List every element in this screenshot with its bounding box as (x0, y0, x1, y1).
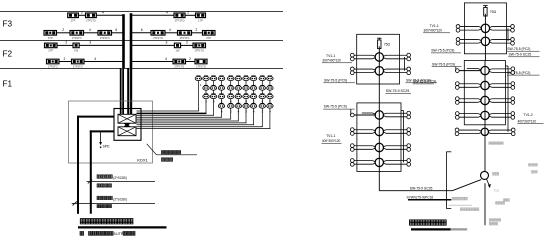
outlet TP column 6 row 4 (235, 104, 241, 108)
outlet TP column 3 row 1 (210, 76, 216, 80)
wire to riser 1 (96, 14, 123, 16)
wire stem column 4 (221, 79, 223, 118)
gray annotation text right column (529, 164, 531, 167)
gray annotation text 5 (504, 199, 507, 202)
note text 一排配线架 (161, 150, 164, 154)
outlet TP column 3 row 2 (210, 86, 216, 90)
wire (59, 61, 72, 63)
wire fan line 2 (137, 112, 207, 114)
gray annotation text 2 (460, 208, 463, 211)
title underline gray (451, 228, 468, 230)
svg-text:SW-75-5 (PC9): SW-75-5 (PC9) (432, 62, 455, 66)
svg-text:2TP1TO: 2TP1TO (174, 65, 184, 69)
svg-text:SYWV(75-9)PC16: SYWV(75-9)PC16 (407, 195, 434, 199)
floor line above F3 (0, 11, 283, 13)
outlet TP column 1 row 1 (195, 76, 201, 80)
wire from riser 2 (131, 14, 174, 16)
svg-text:(2*SC80): (2*SC80) (113, 176, 127, 180)
outlet TO/TP F2 row1 left box1 (45, 43, 58, 48)
wire to riser 1 (84, 61, 124, 63)
incoming cable A (thick) (77, 116, 114, 118)
outlet TP column 5 row 3 (228, 94, 234, 98)
svg-text:2TP: 2TP (71, 19, 76, 23)
svg-text:F3: F3 (3, 20, 13, 29)
outlet TO/TP F3 row2 left box1 (44, 31, 57, 36)
wire to riser 1 (79, 44, 123, 46)
outlet TP column 10 row 1 (267, 76, 273, 80)
wire bus right side chain C lower (505, 65, 508, 67)
riser bundle 2 (to KDX1) (130, 13, 133, 68)
svg-text:SW-75-5 (PC9): SW-75-5 (PC9) (413, 80, 436, 84)
outlet TO F2 row1 right small square (174, 43, 180, 48)
svg-text:1TP1TO: 1TP1TO (73, 65, 83, 69)
title underline (78, 226, 167, 228)
svg-text:2: 2 (62, 28, 64, 32)
svg-text:TV1-1: TV1-1 (326, 134, 335, 138)
svg-text:SW-75-5 (PC9): SW-75-5 (PC9) (324, 105, 347, 109)
outlet TP column 6 row 2 (235, 86, 241, 90)
splitter chain C upper row1 (460, 26, 479, 28)
leader line to data points note (147, 144, 157, 155)
svg-text:300*400*120: 300*400*120 (424, 29, 443, 33)
outlet TP column 9 row 2 (259, 86, 265, 90)
svg-text:TV1-1: TV1-1 (430, 24, 439, 28)
outlet TO/TP F2 row2 left box1 (47, 59, 60, 64)
gray annotation text 3 (489, 219, 491, 222)
wire stem column 1 (197, 79, 199, 112)
outlet TP column 6 row 1 (235, 76, 241, 80)
gray annotation text row5 (489, 142, 491, 145)
outlet TP column 10 row 3 (267, 94, 273, 98)
outlet TP column 8 row 4 (250, 104, 256, 108)
TV distribution box TV1-2 lower (chain C) (464, 61, 505, 125)
annotation text 电话电缆(2*SC80) (97, 175, 100, 179)
svg-text:SW-75-9 SC25: SW-75-9 SC25 (410, 187, 433, 191)
wire fan line 7 (137, 122, 247, 124)
outlet TO F2 row1 left small square (73, 43, 79, 48)
wire fan line 10 (137, 128, 271, 130)
wire link right side chain C upper (507, 28, 509, 41)
splitter chain C lower row1 (459, 70, 481, 72)
outlet TO/TP F3 row2 right box1 (151, 31, 165, 36)
svg-text:400*300*120: 400*300*120 (518, 119, 537, 123)
wire corner left side chain C lower (455, 67, 457, 71)
svg-text:2TP1TO: 2TP1TO (180, 36, 190, 40)
floor line F2/F1 (0, 67, 283, 69)
splitter chain C lower row2 (459, 83, 478, 85)
svg-text:400*300*120: 400*300*120 (322, 139, 341, 143)
svg-text:3: 3 (89, 41, 91, 45)
riser wire chain A lower (378, 103, 380, 191)
outlet TP column 7 row 4 (243, 104, 249, 108)
svg-text:4: 4 (102, 11, 104, 15)
TV distribution box TV1-1 upper (chain C) (464, 3, 506, 54)
svg-text:75Ω: 75Ω (494, 188, 500, 192)
svg-text:2: 2 (64, 57, 66, 61)
svg-text:2TP: 2TP (48, 49, 53, 53)
annotation text 预埋钢管 (97, 204, 100, 207)
riser wire chain C upper (484, 14, 486, 61)
outlet TP column 7 row 2 (243, 86, 249, 90)
outlet TP column 9 row 1 (259, 76, 265, 80)
svg-text:75Ω: 75Ω (384, 42, 391, 46)
title 有线电视系统图 (410, 220, 415, 225)
title underline black (411, 228, 451, 230)
splitter chain A lower row1 (354, 114, 376, 116)
svg-text:2: 2 (187, 10, 189, 14)
svg-text:1TP1TO: 1TP1TO (194, 49, 204, 53)
outlet TP column 4 row 3 (218, 94, 224, 98)
outlet TP column 9 row 4 (259, 104, 265, 108)
svg-text:TV1-2: TV1-2 (524, 113, 533, 117)
wire stem column 3 (213, 79, 215, 116)
svg-text:1TP1TO: 1TP1TO (72, 36, 82, 40)
outlet TO/TP F3 row2 right box3 (203, 31, 216, 36)
cable SYWV(75-9)(PC16) thick stub (408, 199, 451, 201)
wire stem column 8 (253, 79, 255, 126)
wire (84, 32, 99, 34)
svg-text:UTP: UTP (116, 232, 124, 236)
terminator 75 ohm chain A (377, 37, 381, 39)
outlet TP column 3 row 3 (210, 94, 216, 98)
outlet TO/TP F2 row1 right box (193, 43, 206, 48)
outlet TO/TP F3 row1 left box2 (86, 13, 97, 18)
outlet TP column 7 row 3 (243, 94, 249, 98)
arrow symbol below amplifier (487, 179, 490, 185)
svg-text:(2*SC80): (2*SC80) (113, 198, 127, 202)
outlet TP column 2 row 3 (203, 94, 209, 98)
outlet TP column 9 row 3 (259, 94, 265, 98)
svg-text:SW-75-9 SC25: SW-75-9 SC25 (509, 53, 532, 57)
wire (78, 14, 85, 16)
svg-text:SW-75-9 SC25: SW-75-9 SC25 (386, 89, 410, 93)
annotation text 预埋钢管 (97, 184, 100, 187)
title 电话及网络系统系统图 (80, 219, 85, 224)
wire fan line 5 (137, 118, 232, 120)
wire (181, 44, 193, 46)
wire from riser 2 (131, 32, 151, 34)
svg-text:1W: 1W (176, 49, 180, 53)
wire from riser 2 (131, 61, 173, 63)
hourglass link between panels (124, 123, 130, 126)
svg-text:2: 2 (189, 57, 191, 61)
outlet TO/TP F2 row2 left box2 (72, 59, 85, 64)
svg-text:2TP1TO: 2TP1TO (175, 19, 185, 23)
wire fan line 8 (137, 124, 254, 126)
splitter chain A lower row4 (354, 160, 373, 162)
amplifier (481, 171, 489, 179)
outlet TO/TP F3 row1 right box2 (196, 13, 206, 18)
svg-text:2: 2 (195, 28, 197, 32)
svg-text:2TP1TO: 2TP1TO (153, 36, 163, 40)
riser wire chain A upper (378, 46, 380, 84)
svg-text:2TP1TO: 2TP1TO (100, 36, 110, 40)
svg-text:2TP: 2TP (48, 36, 53, 40)
splitter SW-75-5 chain A row2 (354, 68, 373, 70)
wire bus right side chain A lower (401, 110, 404, 112)
wire stem column 10 (269, 79, 271, 129)
outlet TO/TP F3 row2 right box2 (178, 31, 192, 36)
svg-text:4: 4 (165, 57, 167, 61)
svg-text:4: 4 (94, 57, 96, 61)
outlet TO/TP F3 row2 left box3 (98, 31, 112, 36)
outlet TP column 6 row 3 (235, 94, 241, 98)
riser wire below amplifier (484, 183, 486, 225)
outlet TP column 2 row 2 (203, 86, 209, 90)
note 注:各信息点均采用超5类UTP电缆配线 (80, 231, 84, 235)
wire fan line 9 (137, 126, 263, 128)
floor line F3/F2 (0, 40, 283, 42)
svg-text:KDX1: KDX1 (137, 158, 148, 163)
svg-text:TV1-1: TV1-1 (326, 54, 335, 58)
feeder wire from chain A to amplifier (379, 190, 452, 192)
svg-text:SW-75-5 (PC9): SW-75-5 (PC9) (431, 49, 454, 53)
outlet TP column 10 row 2 (267, 86, 273, 90)
riser wire between boxes chain A (378, 84, 380, 103)
TV distribution box TV1-1 upper (chain A) (357, 34, 400, 84)
svg-text:1TP: 1TP (198, 19, 203, 23)
cabinet KDX1 (114, 109, 141, 141)
svg-text:2TP1TO: 2TP1TO (86, 19, 96, 23)
gray annotation text 引自市政有线电视网 (452, 197, 455, 200)
svg-text:1W: 1W (74, 49, 78, 53)
wire stem column 6 (237, 79, 239, 122)
splitter chain C lower row4 (459, 113, 478, 115)
svg-text:300*400*120: 300*400*120 (323, 59, 342, 63)
patch panel 1 (crossed box) (118, 114, 136, 123)
svg-text:75Ω: 75Ω (490, 10, 497, 14)
wire from riser 2 (131, 44, 174, 46)
annotation text 电信光缆(2*SC80) (97, 196, 100, 200)
svg-text:6: 6 (115, 28, 117, 32)
svg-text:F1: F1 (3, 80, 13, 89)
riser wire chain C lower (484, 61, 486, 172)
wire fan line 4 (137, 116, 222, 118)
annotation line: telecom fiber conduit (73, 201, 77, 205)
feeder diagonal into amplifier (452, 180, 481, 191)
bracket (445, 152, 447, 209)
svg-text:6: 6 (141, 28, 143, 32)
wire stem column 2 (205, 79, 207, 114)
surge protector SPD (100, 131, 102, 142)
wire stem column 5 (230, 79, 232, 120)
wire fan line 1 (137, 110, 199, 112)
splitter chain A lower row3 (354, 145, 373, 147)
wire (185, 14, 196, 16)
outlet TO/TP F2 row2 right box2 (195, 59, 207, 64)
TV distribution box TV1-1 lower (chain A) (357, 103, 401, 171)
svg-text:SW-75-5 (PC2): SW-75-5 (PC2) (507, 47, 530, 51)
outlet TO/TP F3 row1 left box1 (68, 13, 79, 18)
wire to riser 1 (112, 32, 124, 34)
svg-text:4: 4 (89, 28, 91, 32)
svg-text:1TP1TO: 1TP1TO (196, 65, 206, 69)
wire fan line 3 (137, 114, 214, 116)
patch panel 2 (crossed box) (118, 127, 136, 136)
outlet TP column 2 row 1 (203, 76, 209, 80)
splitter chain A lower row2 (354, 129, 373, 131)
wire (165, 32, 178, 34)
wire (186, 61, 196, 63)
svg-text:2TP: 2TP (206, 36, 211, 40)
outlet TP column 5 row 4 (228, 104, 234, 108)
svg-text:4: 4 (166, 10, 168, 14)
wire stem column 7 (245, 79, 247, 124)
svg-text:2: 2 (65, 41, 67, 45)
wire (192, 32, 203, 34)
gray annotation line (449, 204, 472, 206)
outlet TO/TP F3 row2 left box2 (70, 31, 84, 36)
terminator 75 ohm chain C (483, 5, 487, 7)
svg-text:SW-75-5 (PC9): SW-75-5 (PC9) (324, 78, 347, 82)
svg-text:SPD: SPD (103, 145, 110, 149)
svg-text:F2: F2 (3, 50, 13, 59)
outlet TP column 4 row 4 (218, 104, 224, 108)
outlet TO/TP F2 row2 right box1 (173, 59, 186, 64)
outlet TP column 4 row 1 (218, 76, 224, 80)
wire corner left side chain A lower (350, 109, 352, 115)
annotation line: telephone cable conduit (88, 180, 92, 184)
wire (57, 44, 73, 46)
svg-text:2: 2 (81, 11, 83, 15)
svg-text:1TP1TO: 1TP1TO (48, 65, 58, 69)
splitter chain C lower row3 (459, 98, 478, 100)
svg-text:2: 2 (186, 41, 188, 45)
wire stem column 9 (261, 79, 263, 128)
splitter chain C upper row2 (460, 39, 479, 41)
note text 数据点 (161, 158, 164, 162)
gray annotation text 4 (496, 202, 499, 205)
wire link right side chain A upper (404, 57, 406, 71)
splitter SW-75-5 chain A row1 (354, 54, 373, 56)
svg-text:4: 4 (169, 28, 171, 32)
outlet TP column 10 row 4 (267, 104, 273, 108)
riser bundle 1 (to KDX1) (122, 14, 125, 68)
outlet TP column 8 row 1 (250, 76, 256, 80)
svg-text:3: 3 (165, 41, 167, 45)
outlet TP column 8 row 2 (250, 86, 256, 90)
outlet TP column 5 row 1 (228, 76, 234, 80)
wire (57, 32, 71, 34)
outlet TP column 4 row 2 (218, 86, 224, 90)
outlet TP column 5 row 2 (228, 86, 234, 90)
equipment room outer enclosure (69, 101, 153, 163)
outlet TP column 7 row 1 (243, 76, 249, 80)
wire fan line 6 (137, 120, 239, 122)
splitter chain C below-box row5 (459, 129, 479, 131)
outlet TO/TP F3 row1 right box1 (174, 13, 185, 18)
outlet TP column 8 row 3 (250, 94, 256, 98)
amplifier gray label (493, 172, 496, 175)
incoming cable B (thick) (90, 130, 114, 132)
